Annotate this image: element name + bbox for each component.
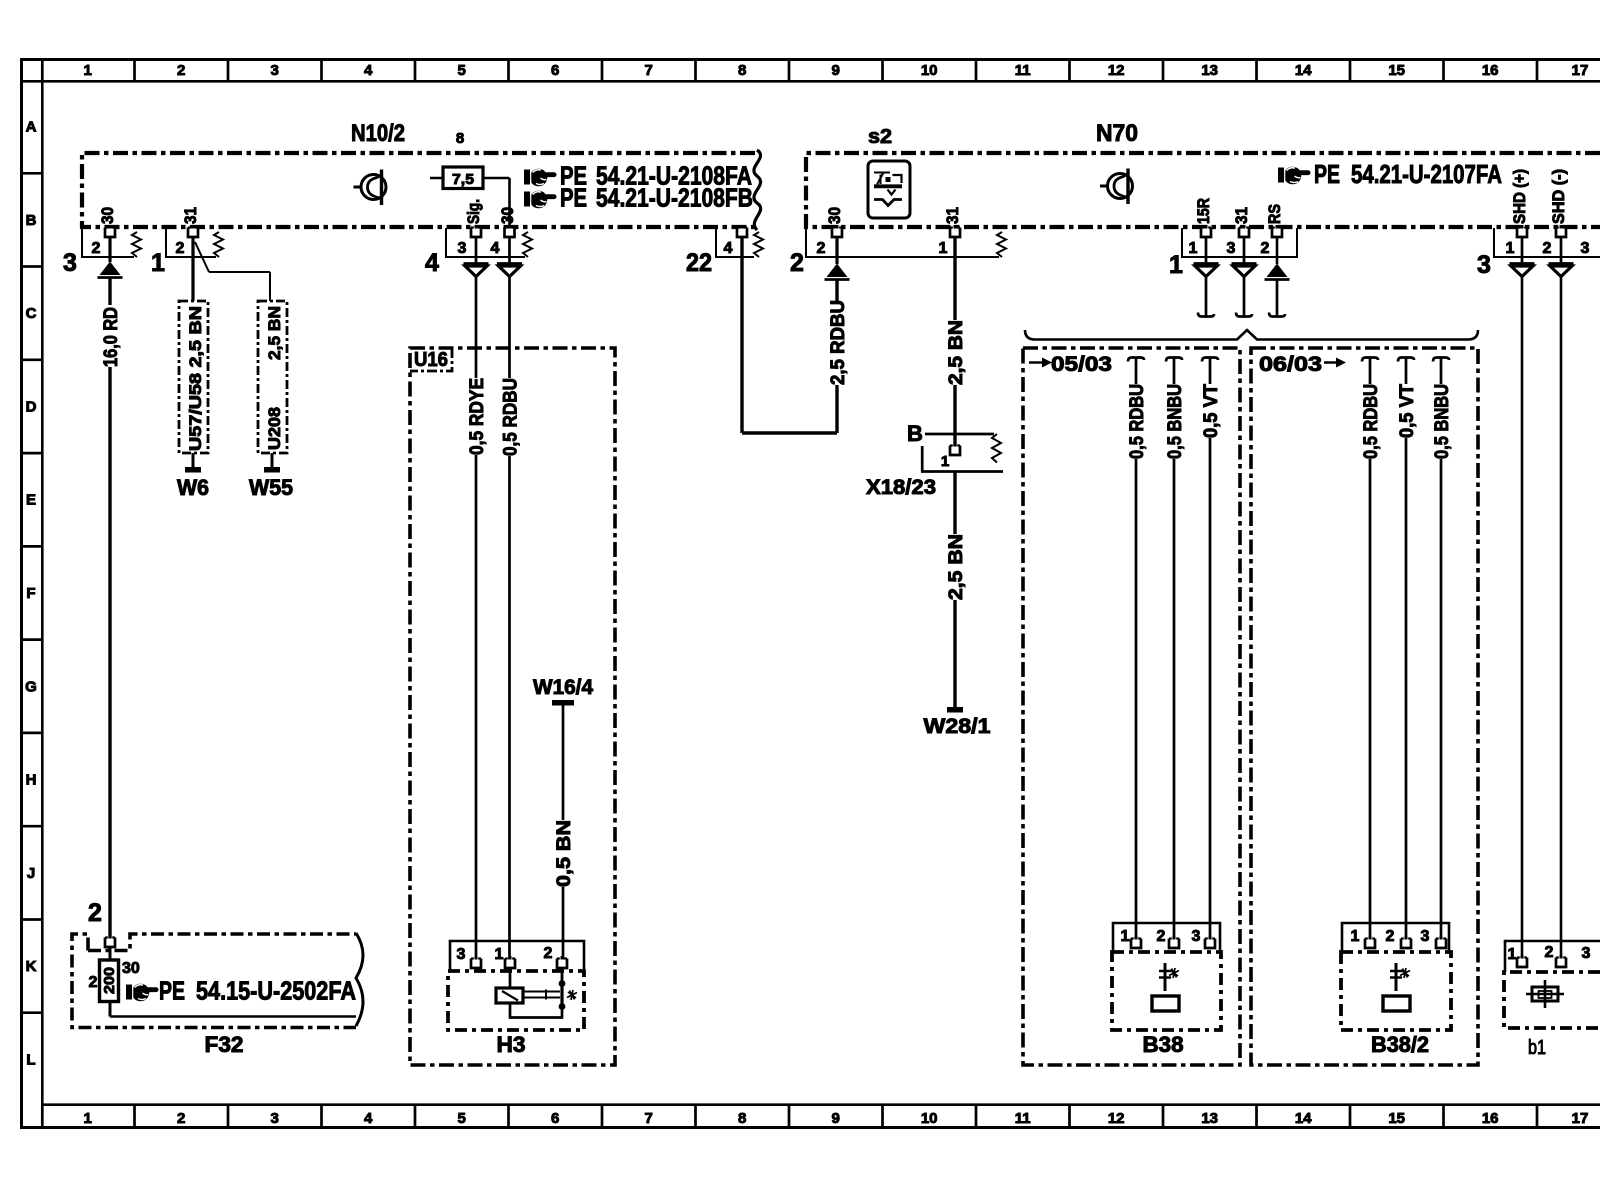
wire 16,0 RD lower (108, 367, 111, 940)
svg-text:E: E (26, 492, 36, 509)
svg-text:U57/U58 2,5 BN: U57/U58 2,5 BN (186, 306, 205, 451)
svg-text:7: 7 (645, 1110, 653, 1127)
svg-text:16: 16 (1482, 62, 1499, 79)
svg-text:1: 1 (1351, 928, 1360, 945)
svg-text:2: 2 (1386, 928, 1395, 945)
svg-text:10: 10 (921, 62, 938, 79)
svg-text:54.21-U-2108FB: 54.21-U-2108FB (596, 183, 753, 213)
svg-text:2,5 BN: 2,5 BN (265, 306, 284, 360)
svg-text:13: 13 (1201, 62, 1218, 79)
horn H3 symbol (509, 969, 512, 988)
connector bracket 1 (15R/31/RS) (1182, 228, 1297, 257)
svg-text:31: 31 (943, 207, 962, 224)
svg-text:12: 12 (1108, 62, 1125, 79)
H3 pin squares (471, 956, 481, 968)
svg-text:54.15-U-2502FA: 54.15-U-2502FA (196, 976, 356, 1006)
svg-text:2,5 BN: 2,5 BN (946, 534, 967, 600)
svg-text:17: 17 (1572, 1110, 1589, 1127)
contact triangle RS (1276, 238, 1279, 264)
arrow 06/03 (1324, 361, 1336, 364)
wire 0,5 RDYE upper (475, 277, 478, 378)
harness box 06/03 (1251, 348, 1478, 1065)
svg-text:B38/2: B38/2 (1371, 1032, 1429, 1057)
svg-text:30: 30 (825, 207, 844, 224)
hand icon F32 (126, 984, 159, 1002)
svg-text:1: 1 (495, 946, 504, 963)
svg-text:4: 4 (491, 240, 500, 257)
svg-text:14: 14 (1295, 1110, 1312, 1127)
svg-text:31: 31 (181, 207, 200, 224)
svg-text:14: 14 (1295, 62, 1312, 79)
svg-text:1: 1 (84, 62, 92, 79)
svg-text:W16/4: W16/4 (533, 676, 593, 699)
module N10/2 box (82, 153, 755, 227)
connector bracket 4 (Sig/30) (446, 228, 525, 257)
svg-text:2: 2 (176, 240, 185, 257)
svg-text:H: H (26, 772, 37, 789)
svg-text:2: 2 (544, 945, 553, 962)
hand icon PE line FB (524, 191, 557, 209)
wires to B38 (1135, 459, 1138, 940)
component box U16 (410, 348, 615, 1065)
svg-text:2: 2 (88, 899, 102, 927)
wire SHD+ to b1 (1521, 277, 1524, 959)
svg-text:31: 31 (1232, 207, 1251, 224)
svg-text:B38: B38 (1143, 1032, 1184, 1057)
wire 0,5 RDBU upper (508, 277, 511, 378)
svg-text:9: 9 (832, 1110, 840, 1127)
svg-text:54.21-U-2107FA: 54.21-U-2107FA (1351, 159, 1502, 189)
svg-text:N70: N70 (1096, 120, 1138, 147)
connector bracket 3 (pin 30) (82, 228, 134, 257)
wire 2,5 BN lower (953, 472, 956, 534)
wire to W28/1 (953, 600, 956, 707)
svg-text:7: 7 (645, 62, 653, 79)
sensor B38 housing (1113, 923, 1220, 952)
svg-text:s2: s2 (868, 126, 892, 148)
svg-text:0,5 VT: 0,5 VT (1201, 384, 1222, 438)
svg-text:16,0 RD: 16,0 RD (101, 307, 122, 367)
hand icon PE line FA (524, 169, 557, 187)
svg-text:30: 30 (98, 207, 117, 224)
svg-text:RS: RS (1265, 204, 1284, 224)
column numbers top (84, 62, 1589, 79)
svg-text:1: 1 (151, 249, 165, 277)
sensor B38 box (1112, 952, 1221, 1030)
svg-text:3: 3 (271, 1110, 279, 1127)
module N70 box (806, 153, 1600, 227)
svg-text:5: 5 (458, 1110, 466, 1127)
wire 2,5 BN upper (953, 238, 956, 320)
U16 title box (410, 348, 452, 371)
svg-text:C: C (26, 305, 37, 322)
sensor B38/2 symbol (1395, 963, 1398, 991)
svg-text:0,5 RDYE: 0,5 RDYE (467, 378, 488, 455)
svg-text:3: 3 (1582, 945, 1591, 962)
ground W6 (192, 453, 195, 467)
svg-text:3: 3 (1477, 251, 1491, 279)
svg-text:11: 11 (1015, 1110, 1031, 1127)
svg-text:30: 30 (498, 207, 517, 224)
frame inner border (41, 80, 1600, 83)
wire 15R stub (1205, 277, 1208, 316)
svg-text:L: L (26, 1051, 35, 1068)
svg-text:0,5 RDBU: 0,5 RDBU (1127, 384, 1148, 459)
fuse F32 torn edge (356, 933, 363, 1026)
svg-text:B: B (26, 212, 37, 229)
bracket big labels (63, 249, 1491, 279)
svg-text:W28/1: W28/1 (924, 715, 991, 738)
svg-text:10: 10 (921, 1110, 938, 1127)
wires to B38/2 (1369, 459, 1372, 940)
svg-text:1: 1 (1508, 946, 1517, 963)
fuse F32 outline (72, 934, 356, 1028)
svg-text:2: 2 (1543, 240, 1552, 257)
electronics symbol in N70 (1100, 169, 1133, 205)
svg-text:13: 13 (1201, 1110, 1218, 1127)
svg-text:3: 3 (458, 240, 467, 257)
svg-text:3: 3 (63, 249, 77, 277)
svg-text:0,5 VT: 0,5 VT (1397, 384, 1418, 438)
sensor b1 symbol (1544, 980, 1547, 1008)
svg-text:12: 12 (1108, 1110, 1125, 1127)
fuse 7,5 in N10/2 (430, 178, 510, 227)
svg-text:PE: PE (1314, 159, 1340, 189)
wire RS stub (1276, 280, 1279, 316)
svg-text:1: 1 (939, 240, 948, 257)
contact triangle pin30 left (108, 238, 111, 262)
svg-text:1: 1 (1121, 928, 1130, 945)
wire diagonal to W55 (195, 242, 270, 301)
svg-text:2: 2 (92, 240, 101, 257)
svg-text:8: 8 (456, 130, 464, 147)
svg-text:0,5 RDBU: 0,5 RDBU (501, 378, 522, 456)
wire 0,5 RDBU lower (508, 456, 511, 961)
svg-text:G: G (25, 678, 37, 695)
svg-text:0,5 BN: 0,5 BN (554, 820, 575, 887)
connector bracket 22 (pin 4) (716, 228, 754, 257)
svg-text:1: 1 (1506, 240, 1515, 257)
sensor B38/2 housing (1342, 923, 1449, 952)
svg-text:J: J (27, 865, 35, 882)
svg-text:3: 3 (271, 62, 279, 79)
svg-text:1: 1 (941, 453, 949, 470)
contact triangle 30/4 (508, 238, 511, 265)
svg-text:2: 2 (1261, 240, 1270, 257)
svg-text:U16: U16 (414, 349, 448, 371)
svg-text:6: 6 (551, 1110, 559, 1127)
contact triangle SHD- (1560, 238, 1563, 265)
svg-text:N10/2: N10/2 (351, 120, 405, 147)
svg-text:4: 4 (364, 1110, 373, 1127)
svg-text:4: 4 (425, 249, 439, 277)
svg-text:SHD (+): SHD (+) (1510, 169, 1529, 224)
harness box 05/03 (1023, 348, 1240, 1065)
wire 16,0 RD upper (108, 278, 111, 305)
hand icon PE N70 (1278, 167, 1311, 185)
svg-text:2,5 BN: 2,5 BN (946, 320, 967, 385)
svg-text:15: 15 (1388, 1110, 1405, 1127)
contact triangle SHD+ (1521, 238, 1524, 265)
svg-text:2: 2 (1545, 944, 1554, 961)
svg-text:11: 11 (1015, 62, 1031, 79)
svg-text:6: 6 (551, 62, 559, 79)
svg-text:0,5 BNBU: 0,5 BNBU (1165, 384, 1186, 459)
svg-text:b1: b1 (1528, 1037, 1546, 1059)
svg-text:7,5: 7,5 (452, 171, 474, 188)
wire 31 stub (1243, 277, 1246, 316)
wire SHD- to b1 (1560, 277, 1563, 959)
bracket small pin numbers (92, 240, 1590, 257)
wire hooks top 05/03 (1135, 358, 1138, 384)
svg-text:2: 2 (790, 249, 804, 277)
svg-text:0,5 RDBU: 0,5 RDBU (1361, 384, 1382, 459)
svg-text:3: 3 (1192, 928, 1201, 945)
svg-text:F: F (26, 585, 35, 602)
wire fuse output (110, 1015, 356, 1018)
column ticks bottom band (135, 1106, 1538, 1129)
svg-text:2: 2 (177, 1110, 185, 1127)
svg-text:1: 1 (84, 1110, 92, 1127)
connector X18/23 (925, 433, 994, 436)
svg-text:W6: W6 (177, 475, 209, 500)
contact triangle 15R (1205, 238, 1208, 265)
connector bracket 1 (pin 31) (166, 228, 216, 257)
wire into X18/23 (953, 385, 956, 448)
svg-text:4: 4 (364, 62, 373, 79)
ground W55 (271, 453, 274, 467)
svg-text:5: 5 (458, 62, 466, 79)
arrow 05/03 (1029, 361, 1042, 364)
svg-text:SHD (-): SHD (-) (1549, 169, 1568, 224)
sensor B38 symbol (1164, 963, 1167, 991)
wire horizontal joint (742, 431, 837, 434)
pin squares on module bottoms (105, 225, 115, 237)
switch icon s2 (868, 161, 910, 218)
brace (1025, 330, 1478, 340)
svg-text:17: 17 (1572, 62, 1589, 79)
pin square F32 (105, 935, 115, 947)
svg-text:3: 3 (457, 946, 466, 963)
svg-text:3: 3 (1581, 240, 1590, 257)
connector bracket 3 (SHD) (1494, 228, 1600, 257)
svg-text:2: 2 (177, 62, 185, 79)
svg-text:05/03: 05/03 (1051, 353, 1112, 376)
svg-text:PE: PE (159, 976, 185, 1006)
wire 0,5 RDYE lower (475, 455, 478, 961)
svg-text:F32: F32 (205, 1032, 244, 1057)
svg-text:16: 16 (1482, 1110, 1499, 1127)
svg-text:1: 1 (1189, 240, 1198, 257)
wire 0,5 BN upper (562, 705, 565, 820)
connector bracket 2 (N70 30/31) (806, 228, 999, 257)
svg-text:U208: U208 (265, 407, 284, 450)
wire 0,5 BN lower (562, 887, 565, 961)
column ticks top band (135, 58, 1538, 80)
ground lead W55 box (258, 301, 287, 453)
sensor b1 housing (1505, 941, 1600, 972)
sensor B38/2 box (1341, 952, 1451, 1030)
horn H3 component box (448, 971, 584, 1030)
svg-text:30: 30 (122, 960, 140, 977)
row letters left band (25, 119, 37, 1069)
electronics symbol in N10/2 (354, 170, 387, 206)
svg-text:3: 3 (1227, 240, 1236, 257)
module N10/2 torn edge (754, 150, 761, 230)
svg-text:8: 8 (738, 62, 746, 79)
svg-text:2: 2 (1157, 928, 1166, 945)
svg-text:PE: PE (560, 183, 587, 213)
contact triangle 31b (1243, 238, 1246, 265)
wire 2,5 RDBU segments (835, 280, 838, 433)
svg-text:A: A (26, 119, 37, 136)
svg-text:8: 8 (738, 1110, 746, 1127)
svg-text:0,5 BNBU: 0,5 BNBU (1432, 384, 1453, 459)
svg-text:D: D (26, 399, 37, 416)
ground lead W6 box (179, 301, 208, 453)
svg-text:B: B (907, 421, 923, 446)
svg-text:4: 4 (724, 240, 733, 257)
svg-text:3: 3 (1421, 928, 1430, 945)
svg-text:2,5 RDBU: 2,5 RDBU (828, 300, 849, 385)
wire hooks top 06/03 (1369, 358, 1372, 384)
ground W28/1 (947, 707, 963, 713)
column numbers bottom (84, 1110, 1589, 1127)
horn H3 housing (450, 941, 584, 970)
row ticks left band (20, 58, 42, 1129)
svg-text:H3: H3 (497, 1032, 526, 1057)
frame outer border (20, 58, 1600, 61)
contact triangle N70 pin30 (835, 238, 838, 264)
contact triangle Sig (475, 238, 478, 265)
svg-text:15: 15 (1388, 62, 1405, 79)
wire from pin 4 (22) (740, 238, 743, 433)
svg-text:06/03: 06/03 (1259, 353, 1322, 376)
sensor b1 box (1504, 972, 1600, 1028)
svg-text:2: 2 (817, 240, 826, 257)
svg-text:1: 1 (1169, 251, 1183, 279)
wire to W6 (191, 238, 194, 301)
svg-text:2: 2 (89, 974, 98, 991)
svg-text:22: 22 (686, 249, 712, 277)
svg-text:9: 9 (832, 62, 840, 79)
svg-text:X18/23: X18/23 (866, 476, 936, 499)
svg-text:200: 200 (101, 967, 118, 994)
svg-text:15R: 15R (1194, 198, 1213, 224)
svg-text:W55: W55 (249, 475, 293, 500)
svg-text:K: K (26, 958, 37, 975)
fuse element 200 (109, 948, 112, 1017)
svg-text:Sig.: Sig. (464, 199, 483, 224)
